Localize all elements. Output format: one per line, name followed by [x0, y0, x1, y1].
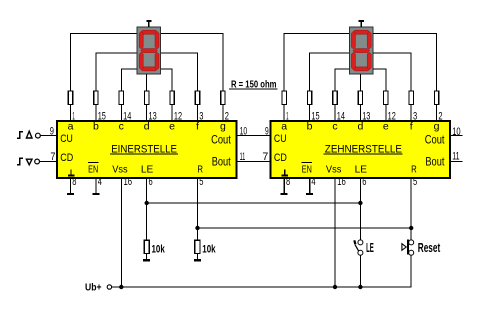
- display DIS1 segment c: [155, 52, 159, 70]
- input CU pulse symbol: [17, 132, 23, 138]
- wire CD terminal to U1: [40, 161, 56, 163]
- svg-text:2: 2: [438, 110, 442, 122]
- U1 ground pin symbol (up tack): [68, 170, 75, 176]
- U1 label EN with overline: [88, 162, 99, 175]
- wire net e right: [373, 69, 386, 91]
- op IC U2 body: [271, 121, 450, 178]
- wire R4 to ground: [197, 254, 199, 260]
- junction dot rail / U2 Vss: [333, 285, 337, 289]
- svg-text:Reset: Reset: [418, 240, 441, 255]
- wire R3 to ground: [146, 254, 148, 260]
- resistor Rb right: [307, 91, 311, 120]
- ground R3: [143, 259, 150, 261]
- wire U1 Vss pin16 down to Ub+ rail: [120, 178, 122, 287]
- svg-text:1: 1: [72, 110, 74, 122]
- svg-text:R: R: [411, 164, 417, 176]
- svg-text:12: 12: [174, 110, 182, 122]
- svg-text:b: b: [307, 121, 313, 133]
- resistor Rg left: [221, 91, 225, 120]
- svg-text:CD: CD: [274, 152, 287, 164]
- junction dot LE right: [358, 201, 362, 205]
- display DIS2 segment b: [367, 31, 371, 49]
- svg-text:16: 16: [124, 176, 133, 188]
- display DIS2 segment e: [351, 52, 355, 70]
- wire R horizontal U1 to U2: [198, 227, 412, 229]
- svg-text:4: 4: [311, 176, 315, 188]
- ground U2 pin 4: [306, 178, 313, 194]
- input CD pulse symbol: [17, 158, 23, 164]
- svg-text:e: e: [383, 121, 389, 133]
- junction dot LE left: [145, 201, 149, 205]
- svg-text:EN: EN: [88, 164, 98, 176]
- wire net a right: [284, 33, 349, 91]
- wire U2 R pin5 down to button: [410, 178, 412, 240]
- junction dot R right: [409, 226, 413, 230]
- svg-text:15: 15: [98, 110, 106, 122]
- resistor Rb left: [94, 91, 98, 120]
- junction dot rail / LE switch: [358, 285, 362, 289]
- svg-text:LE: LE: [355, 164, 367, 176]
- svg-text:Cout: Cout: [211, 132, 231, 146]
- resistor Ra left: [68, 91, 72, 120]
- 7-segment display DIS1 body: [137, 27, 160, 74]
- ground U2 pin 8: [281, 178, 288, 194]
- wire U1 R pin5 down: [197, 178, 199, 240]
- svg-text:g: g: [434, 121, 440, 133]
- svg-text:f: f: [410, 121, 413, 133]
- resistor R3 10k body: [144, 240, 149, 253]
- svg-text:16: 16: [337, 176, 346, 188]
- display DIS1 segment g: [141, 49, 158, 53]
- wire CU terminal to U1: [40, 135, 56, 137]
- svg-text:Bout: Bout: [425, 155, 445, 169]
- svg-text:11: 11: [452, 150, 459, 162]
- svg-text:13: 13: [149, 110, 157, 122]
- resistor Ra right: [282, 91, 286, 120]
- svg-text:6: 6: [362, 176, 366, 188]
- svg-text:3: 3: [413, 110, 417, 122]
- display DIS2 segment g: [353, 49, 370, 53]
- wire U2 Vss pin16 down to Ub+ rail: [334, 178, 336, 287]
- svg-text:6: 6: [149, 176, 153, 188]
- wire Ub+ rail: [112, 286, 411, 288]
- display DIS1 segment d: [141, 67, 158, 71]
- wire net c left: [121, 69, 136, 91]
- svg-text:a: a: [281, 121, 287, 133]
- display DIS1 segment e: [139, 52, 143, 70]
- svg-text:8: 8: [72, 176, 76, 188]
- svg-text:4: 4: [98, 176, 102, 188]
- wire U1 LE pin6 down: [146, 178, 148, 240]
- svg-text:f: f: [196, 121, 199, 133]
- svg-text:CD: CD: [60, 152, 73, 164]
- ground U1 pin 4: [92, 178, 99, 194]
- svg-text:14: 14: [123, 110, 131, 122]
- display DIS1 segment f: [139, 31, 143, 49]
- svg-text:CU: CU: [274, 133, 287, 145]
- resistor R4 10k body: [195, 240, 200, 253]
- svg-text:3: 3: [199, 110, 203, 122]
- svg-text:CU: CU: [60, 133, 73, 145]
- display DIS1 segment a: [141, 30, 158, 34]
- svg-text:e: e: [169, 121, 175, 133]
- svg-text:Cout: Cout: [425, 132, 445, 146]
- resistor Rc left: [119, 91, 123, 120]
- junction dot R left: [195, 226, 199, 230]
- display DIS2 segment f: [351, 31, 355, 49]
- switch S1 LE contacts: [358, 240, 363, 255]
- display DIS2 segment c: [367, 52, 371, 70]
- U1 title EINERSTELLE underlined: [110, 143, 178, 155]
- input CD triangle down: [26, 159, 32, 165]
- svg-text:EN: EN: [302, 164, 312, 176]
- U2 Cout stub wire: [450, 135, 462, 137]
- display DIS2 segment a: [353, 30, 370, 34]
- svg-text:g: g: [220, 121, 226, 133]
- resistor Rc right: [333, 91, 337, 120]
- Ub+ terminal circle: [107, 285, 111, 289]
- wire net e left: [161, 69, 172, 91]
- svg-text:c: c: [119, 121, 124, 133]
- ground R4: [194, 259, 201, 261]
- junction dot rail / U1 Vss: [119, 285, 123, 289]
- svg-text:15: 15: [311, 110, 319, 122]
- 7-segment display DIS2 body: [349, 27, 372, 74]
- wire net c right: [335, 69, 349, 91]
- svg-text:2: 2: [225, 110, 229, 122]
- wire net b left: [96, 53, 137, 91]
- svg-text:d: d: [357, 121, 363, 133]
- svg-text:a: a: [68, 121, 74, 133]
- ground U1 pin 8: [67, 178, 74, 194]
- resistor Rd right: [358, 91, 362, 120]
- wire net g right: [373, 33, 437, 91]
- input CD terminal circle: [35, 159, 40, 164]
- button S2 actuator triangle: [402, 244, 406, 251]
- display DIS2 segment d: [353, 67, 370, 71]
- switch S1 lever: [354, 240, 358, 251]
- svg-text:14: 14: [337, 110, 345, 122]
- svg-text:10k: 10k: [152, 243, 166, 255]
- wire net d left: [146, 74, 148, 91]
- svg-text:10k: 10k: [202, 243, 216, 255]
- wire net f left: [161, 53, 198, 91]
- svg-text:c: c: [332, 121, 337, 133]
- resistor Re left: [170, 91, 174, 120]
- resistor Re right: [384, 91, 388, 120]
- U2 Bout stub wire: [450, 160, 462, 162]
- svg-text:LE: LE: [141, 164, 153, 176]
- wire Reset button to rail end: [410, 255, 412, 287]
- svg-text:d: d: [144, 121, 150, 133]
- wire net b right: [310, 53, 349, 91]
- wire net f right: [373, 53, 411, 91]
- op IC U1 body: [57, 121, 236, 178]
- svg-text:Vss: Vss: [112, 164, 128, 176]
- U2 ground pin symbol (up tack): [282, 170, 289, 176]
- svg-text:Bout: Bout: [212, 155, 232, 169]
- svg-text:1: 1: [286, 110, 288, 122]
- button S2 Reset contacts: [409, 240, 414, 255]
- svg-text:13: 13: [362, 110, 370, 122]
- wire net d right: [359, 74, 361, 91]
- svg-text:5: 5: [413, 176, 417, 188]
- svg-text:LE: LE: [366, 240, 374, 255]
- input CU terminal circle: [36, 133, 41, 138]
- svg-text:Ub+: Ub+: [85, 282, 102, 293]
- wire LE horizontal U1 to U2: [147, 202, 361, 204]
- wire net a left: display to resistor column: [71, 33, 137, 91]
- svg-text:5: 5: [199, 176, 203, 188]
- display DIS1 common pin terminal: [146, 20, 151, 27]
- wire net g left: [161, 33, 223, 91]
- resistor Rd left: [145, 91, 149, 120]
- resistor Rf right: [409, 91, 413, 120]
- svg-text:8: 8: [286, 176, 290, 188]
- input CU triangle up: [26, 131, 32, 138]
- U2 label EN with overline: [302, 162, 313, 175]
- value label R = 150 ohm: [229, 79, 278, 91]
- svg-text:R: R: [197, 164, 203, 176]
- display DIS2 common pin terminal: [359, 20, 364, 27]
- svg-text:12: 12: [388, 110, 396, 122]
- wire LE switch to rail: [359, 255, 361, 287]
- wire Cout(10) to CU(9): [236, 135, 269, 137]
- resistor Rg right: [434, 91, 438, 120]
- svg-text:Vss: Vss: [326, 164, 342, 176]
- wire U2 LE pin6 down to switch: [359, 178, 361, 240]
- button S2 actuator bar: [407, 239, 409, 254]
- svg-text:11: 11: [240, 151, 246, 163]
- wire Bout(11) to CD(7): [236, 161, 269, 163]
- U2 title ZEHNERSTELLE underlined: [324, 143, 403, 155]
- display DIS1 segment b: [155, 31, 159, 49]
- svg-text:b: b: [93, 121, 99, 133]
- resistor Rf left: [195, 91, 199, 120]
- svg-text:10: 10: [240, 125, 248, 137]
